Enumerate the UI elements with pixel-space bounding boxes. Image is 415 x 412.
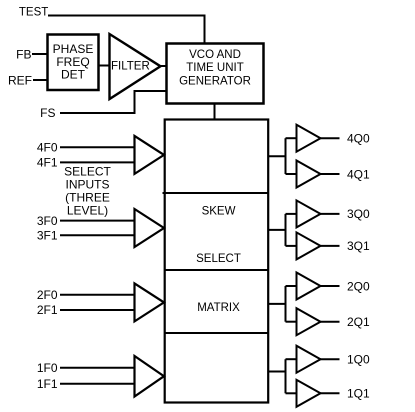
svg-text:4F0: 4F0 <box>37 141 58 155</box>
svg-text:1F1: 1F1 <box>37 377 58 391</box>
svg-text:3F0: 3F0 <box>37 214 58 228</box>
svg-text:3Q0: 3Q0 <box>347 207 370 221</box>
svg-text:2F1: 2F1 <box>37 303 58 317</box>
svg-text:1Q1: 1Q1 <box>347 387 370 401</box>
svg-text:FS: FS <box>40 106 55 120</box>
svg-text:1Q0: 1Q0 <box>347 353 370 367</box>
svg-text:(THREE: (THREE <box>65 191 110 205</box>
svg-text:MATRIX: MATRIX <box>197 302 240 314</box>
svg-text:4F1: 4F1 <box>37 156 58 170</box>
svg-text:1F0: 1F0 <box>37 361 58 375</box>
svg-text:GENERATOR: GENERATOR <box>179 76 251 88</box>
svg-text:DET: DET <box>61 68 86 82</box>
svg-text:2F0: 2F0 <box>37 288 58 302</box>
svg-text:2Q0: 2Q0 <box>347 279 370 293</box>
svg-text:SKEW: SKEW <box>202 205 236 217</box>
svg-text:LEVEL): LEVEL) <box>67 204 108 218</box>
svg-text:PHASE: PHASE <box>53 42 94 56</box>
svg-text:2Q1: 2Q1 <box>347 315 370 329</box>
svg-text:TIME UNIT: TIME UNIT <box>186 62 244 74</box>
svg-text:FILTER: FILTER <box>111 61 150 73</box>
svg-text:INPUTS: INPUTS <box>65 178 109 192</box>
svg-text:VCO AND: VCO AND <box>189 49 241 61</box>
svg-text:3F1: 3F1 <box>37 229 58 243</box>
svg-text:REF: REF <box>8 73 32 87</box>
svg-text:SELECT: SELECT <box>196 253 241 265</box>
svg-text:FB: FB <box>16 47 31 61</box>
svg-text:4Q1: 4Q1 <box>347 167 370 181</box>
svg-text:3Q1: 3Q1 <box>347 239 370 253</box>
svg-text:SELECT: SELECT <box>64 165 111 179</box>
svg-text:TEST: TEST <box>19 6 48 18</box>
svg-text:4Q0: 4Q0 <box>347 132 370 146</box>
